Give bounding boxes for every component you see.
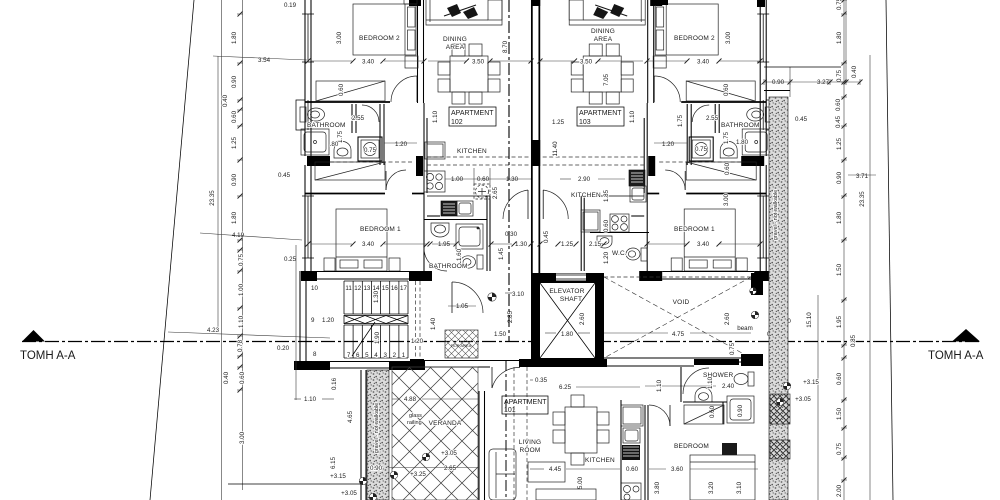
- exterior wall west: [304, 0, 306, 156]
- svg-text:1.80: 1.80: [231, 31, 238, 44]
- kitchen west wall: [423, 103, 425, 271]
- door corridor: [503, 190, 528, 219]
- svg-text:0.90: 0.90: [231, 75, 238, 88]
- right dimension chain labels: [767, 0, 869, 497]
- svg-text:ROOM: ROOM: [519, 447, 540, 454]
- svg-text:11: 11: [345, 285, 352, 292]
- svg-text:2.85: 2.85: [507, 310, 514, 323]
- svg-text:5.00: 5.00: [577, 476, 584, 489]
- bed bedroom2: [353, 4, 416, 55]
- apt101 entry door: [492, 367, 520, 388]
- svg-text:BEDROOM 2: BEDROOM 2: [359, 35, 400, 42]
- svg-text:1.80: 1.80: [736, 139, 749, 146]
- svg-text:TOMH A-A: TOMH A-A: [20, 350, 76, 362]
- elevator shaft: [531, 273, 604, 367]
- corridor door from landing: [452, 282, 483, 313]
- right dim chain verticals: [843, 0, 845, 500]
- svg-text:SHAFT: SHAFT: [560, 296, 582, 303]
- svg-text:10: 10: [311, 285, 318, 292]
- svg-text:1.80: 1.80: [231, 211, 238, 224]
- svg-text:0.75: 0.75: [836, 442, 843, 455]
- svg-text:13: 13: [363, 285, 370, 292]
- kitchen counter apt102: [424, 142, 490, 216]
- sofa lower edge: [536, 489, 596, 500]
- svg-text:1.25: 1.25: [561, 241, 574, 248]
- dining table: [450, 56, 488, 92]
- stair numbers: [311, 285, 407, 359]
- svg-text:0.60: 0.60: [724, 162, 731, 175]
- expansion joint dashes: [415, 281, 417, 358]
- right boundary line: [886, 0, 893, 500]
- svg-text:0.90: 0.90: [737, 404, 744, 417]
- svg-text:23.35: 23.35: [209, 190, 216, 206]
- svg-text:6.15: 6.15: [330, 456, 337, 469]
- svg-text:0.45: 0.45: [278, 172, 291, 179]
- bedroom apt101: [645, 405, 758, 500]
- bathroom window bump: [296, 100, 305, 130]
- svg-text:1.00: 1.00: [451, 176, 464, 183]
- svg-text:1.40: 1.40: [430, 317, 437, 330]
- svg-text:AREA: AREA: [446, 44, 465, 51]
- svg-text:3.40: 3.40: [697, 59, 710, 66]
- svg-text:1.30: 1.30: [506, 176, 519, 183]
- svg-text:+3.15: +3.15: [803, 379, 819, 386]
- svg-text:TOMH A-A: TOMH A-A: [928, 350, 984, 362]
- svg-text:6.25: 6.25: [559, 384, 572, 391]
- svg-text:4: 4: [374, 352, 378, 359]
- svg-text:8.70: 8.70: [502, 40, 509, 53]
- svg-text:3.71: 3.71: [856, 173, 869, 180]
- veranda dims/levels: [228, 245, 478, 500]
- svg-text:gravel - not walkable: gravel - not walkable: [773, 190, 779, 240]
- svg-text:2.65: 2.65: [492, 186, 499, 199]
- sofa apt101: [489, 449, 516, 500]
- site boundary diagonal (left property line): [150, 0, 194, 500]
- bed bedroom1: [336, 209, 387, 271]
- svg-text:1.20: 1.20: [411, 338, 424, 345]
- svg-text:0.90: 0.90: [370, 465, 383, 472]
- svg-text:0.16: 0.16: [331, 377, 338, 390]
- bedroom1 north wall: [305, 193, 385, 195]
- svg-text:4.45: 4.45: [549, 466, 562, 473]
- svg-text:16: 16: [391, 285, 398, 292]
- svg-text:2.90: 2.90: [578, 176, 591, 183]
- veranda lattice: [392, 367, 478, 500]
- svg-text:1.90: 1.90: [374, 331, 381, 344]
- svg-text:beam: beam: [737, 325, 752, 332]
- svg-text:1.25: 1.25: [836, 137, 843, 150]
- svg-text:BATHROOM: BATHROOM: [429, 263, 468, 270]
- svg-text:3.40: 3.40: [362, 241, 375, 248]
- svg-text:3.50: 3.50: [580, 59, 593, 66]
- site line vertical left: [221, 0, 223, 500]
- svg-text:0.19: 0.19: [284, 2, 297, 9]
- svg-text:DINING: DINING: [443, 36, 467, 43]
- shower tray: [301, 129, 329, 155]
- svg-text:1.10: 1.10: [707, 376, 714, 389]
- svg-text:1.20: 1.20: [395, 141, 408, 148]
- svg-text:+3.05: +3.05: [341, 490, 357, 497]
- svg-text:3.00: 3.00: [239, 431, 246, 444]
- apartment unit geometry (walls/furniture): [296, 0, 540, 281]
- building lower-left wall: [360, 370, 362, 500]
- beam dashed lines: [427, 156, 531, 158]
- svg-text:W.C.: W.C.: [612, 250, 627, 257]
- stair treads lower flight: [344, 325, 408, 358]
- svg-text:2.00: 2.00: [836, 484, 843, 497]
- bathroom2 fixtures apt102: [424, 220, 487, 272]
- svg-text:0.85: 0.85: [850, 334, 857, 347]
- svg-text:15: 15: [382, 285, 389, 292]
- svg-text:15.10: 15.10: [806, 312, 813, 328]
- svg-text:8: 8: [313, 351, 317, 358]
- svg-text:0.40: 0.40: [851, 65, 858, 78]
- svg-text:+3.15: +3.15: [330, 473, 346, 480]
- svg-text:101: 101: [504, 407, 516, 414]
- bedroom1 south wall: [301, 271, 317, 281]
- crosshatch blocks right: [770, 394, 790, 424]
- svg-text:3.60: 3.60: [671, 466, 684, 473]
- svg-text:2.55: 2.55: [706, 115, 719, 122]
- svg-text:0.90: 0.90: [836, 171, 843, 184]
- gravel strip bottom-left: [367, 370, 389, 500]
- svg-text:1.75: 1.75: [677, 114, 684, 127]
- svg-text:gravel - not walkable: gravel - not walkable: [374, 403, 380, 453]
- living room apt101: [489, 377, 640, 500]
- left dimension chain labels: [207, 2, 297, 444]
- svg-text:0.40: 0.40: [223, 371, 230, 384]
- stair rail: [344, 316, 408, 324]
- left dim chain verticals: [242, 0, 244, 490]
- svg-text:102: 102: [451, 119, 463, 126]
- svg-text:1.10: 1.10: [304, 396, 317, 403]
- svg-text:1.95: 1.95: [438, 241, 451, 248]
- dim slashes row y61 & y244: [306, 59, 763, 247]
- stair direction line: [352, 322, 375, 356]
- svg-text:0.30: 0.30: [505, 231, 518, 238]
- svg-text:glass: glass: [409, 413, 422, 419]
- svg-text:7: 7: [347, 352, 351, 359]
- svg-text:BATHROOM: BATHROOM: [307, 122, 346, 129]
- svg-text:6: 6: [356, 352, 360, 359]
- svg-text:3.00: 3.00: [723, 193, 730, 206]
- svg-text:1.85: 1.85: [603, 189, 610, 202]
- svg-text:0.60: 0.60: [836, 372, 843, 385]
- svg-text:0.60: 0.60: [835, 98, 842, 111]
- svg-text:0.60: 0.60: [626, 466, 639, 473]
- svg-text:3.00: 3.00: [725, 31, 732, 44]
- svg-text:0.25: 0.25: [284, 256, 297, 263]
- apartment 102 labels: [307, 31, 531, 270]
- svg-text:23.35: 23.35: [859, 191, 866, 207]
- closet apt101: [684, 405, 724, 424]
- svg-text:1.80: 1.80: [836, 211, 843, 224]
- svg-text:0.75: 0.75: [729, 342, 736, 355]
- top-right terrace walls: [764, 66, 841, 68]
- section marker left triangle: [22, 330, 45, 342]
- spot levels right gravel: [783, 382, 791, 390]
- left dim ticks: [168, 12, 330, 393]
- svg-text:+3.05: +3.05: [441, 450, 457, 457]
- right apartment unit (mirror): [531, 0, 775, 281]
- svg-text:14: 14: [373, 285, 380, 292]
- svg-text:0.90: 0.90: [231, 173, 238, 186]
- svg-text:1.80: 1.80: [836, 31, 843, 44]
- svg-text:VOID: VOID: [673, 299, 690, 306]
- svg-text:APARTMENT: APARTMENT: [504, 399, 547, 406]
- svg-text:0.60: 0.60: [338, 83, 345, 96]
- stairwell walls: [294, 271, 425, 370]
- svg-text:2.15: 2.15: [589, 241, 602, 248]
- svg-text:0.78: 0.78: [237, 339, 244, 352]
- svg-text:1.75: 1.75: [723, 131, 730, 144]
- kitchen counter apt103: [581, 170, 646, 232]
- bathroom walls: [379, 104, 381, 165]
- svg-text:3.10: 3.10: [512, 291, 525, 298]
- svg-text:0.45: 0.45: [835, 115, 842, 128]
- bathroom2 walls: [486, 196, 488, 271]
- bottom block top wall: [410, 359, 763, 367]
- svg-text:0.60: 0.60: [239, 371, 246, 384]
- svg-text:3.40: 3.40: [697, 241, 710, 248]
- svg-text:7.05: 7.05: [603, 73, 610, 86]
- svg-text:BEDROOM 1: BEDROOM 1: [360, 226, 401, 233]
- svg-text:0.75: 0.75: [695, 146, 708, 153]
- void area: [604, 276, 751, 278]
- svg-text:2.65: 2.65: [444, 465, 457, 472]
- svg-text:2.40: 2.40: [722, 383, 735, 390]
- svg-text:2: 2: [393, 352, 397, 359]
- svg-text:11.40: 11.40: [552, 141, 559, 157]
- closet bedroom2: [316, 81, 385, 101]
- svg-text:3: 3: [383, 352, 387, 359]
- svg-text:1.80: 1.80: [561, 331, 574, 338]
- svg-text:9: 9: [311, 317, 315, 324]
- apartment 103 labels: [543, 28, 760, 264]
- svg-text:1.50: 1.50: [836, 407, 843, 420]
- svg-text:VERANDA: VERANDA: [429, 420, 462, 427]
- svg-text:1.45: 1.45: [498, 247, 505, 260]
- svg-text:0.45: 0.45: [543, 230, 550, 243]
- svg-text:12: 12: [354, 285, 361, 292]
- svg-text:4.65: 4.65: [347, 410, 354, 423]
- wc cell: [358, 137, 382, 161]
- stair treads upper flight: [344, 281, 408, 314]
- svg-text:LIVING: LIVING: [519, 439, 542, 446]
- svg-text:railing: railing: [407, 420, 422, 426]
- svg-text:APARTMENT: APARTMENT: [451, 110, 494, 117]
- right dim ticks: [762, 0, 877, 483]
- svg-text:3.27: 3.27: [817, 79, 830, 86]
- svg-text:1: 1: [402, 352, 406, 359]
- veranda east wall: [478, 391, 480, 500]
- svg-text:BATHROOM: BATHROOM: [721, 122, 760, 129]
- sofa: [426, 0, 502, 25]
- svg-text:1.00: 1.00: [238, 283, 245, 296]
- svg-text:0.75: 0.75: [364, 147, 377, 154]
- svg-text:0.75: 0.75: [836, 69, 843, 82]
- svg-text:BEDROOM 1: BEDROOM 1: [674, 226, 715, 233]
- svg-text:1.20: 1.20: [662, 141, 675, 148]
- svg-text:1.10: 1.10: [432, 110, 439, 123]
- center party line: [508, 0, 510, 341]
- w.c. fixtures apt103: [590, 233, 649, 262]
- svg-text:APARTMENT: APARTMENT: [579, 110, 622, 117]
- exterior wall west lower: [304, 165, 306, 271]
- door hall: [386, 170, 406, 190]
- svg-text:2.55: 2.55: [352, 115, 365, 122]
- svg-text:0.60: 0.60: [477, 176, 490, 183]
- svg-text:KITCHEN: KITCHEN: [457, 148, 487, 155]
- wash basin: [334, 142, 351, 159]
- bedroom2 south wall: [305, 101, 390, 103]
- lobby hatch block: [445, 330, 478, 358]
- svg-text:4.75: 4.75: [672, 331, 685, 338]
- shower room apt101: [645, 367, 754, 424]
- svg-text:1.50: 1.50: [836, 263, 843, 276]
- svg-text:0.40: 0.40: [222, 94, 229, 107]
- svg-text:103: 103: [579, 119, 591, 126]
- core black columns right: [751, 273, 763, 295]
- svg-text:ELEVATOR: ELEVATOR: [549, 288, 584, 295]
- svg-text:1.05: 1.05: [456, 303, 469, 310]
- toilet: [300, 107, 306, 122]
- svg-text:3.20: 3.20: [708, 481, 715, 494]
- bedroom2 east wall: [417, 0, 419, 103]
- svg-text:3.40: 3.40: [362, 59, 375, 66]
- section line A-A: [22, 341, 980, 343]
- svg-text:1.25: 1.25: [231, 136, 238, 149]
- svg-text:17: 17: [400, 285, 407, 292]
- svg-text:1.30: 1.30: [373, 290, 380, 303]
- svg-text:+3.25: +3.25: [410, 471, 426, 478]
- svg-text:BEDROOM: BEDROOM: [674, 443, 709, 450]
- svg-text:1.10: 1.10: [629, 110, 636, 123]
- svg-text:3.80: 3.80: [654, 481, 661, 494]
- svg-text:0.60: 0.60: [723, 83, 730, 96]
- closet hall: [315, 162, 385, 180]
- svg-text:1.60: 1.60: [456, 248, 463, 261]
- svg-text:DINING: DINING: [591, 28, 615, 35]
- svg-text:2.60: 2.60: [579, 312, 586, 325]
- svg-text:1.30: 1.30: [515, 241, 528, 248]
- svg-text:1.25: 1.25: [552, 119, 565, 126]
- section marker right triangle: [952, 329, 980, 342]
- svg-text:ΠΟΡ AREA: ΠΟΡ AREA: [451, 343, 472, 348]
- svg-text:1.20: 1.20: [603, 251, 610, 264]
- party wall: [531, 0, 533, 273]
- svg-text:3.10: 3.10: [736, 481, 743, 494]
- svg-text:3.50: 3.50: [472, 59, 485, 66]
- svg-text:0.20: 0.20: [277, 345, 290, 352]
- svg-text:0.60: 0.60: [231, 110, 238, 123]
- svg-text:2.60: 2.60: [724, 312, 731, 325]
- svg-text:AREA: AREA: [594, 36, 613, 43]
- svg-text:KITCHEN: KITCHEN: [571, 192, 601, 199]
- svg-text:0.60: 0.60: [603, 219, 610, 232]
- svg-text:1.10: 1.10: [656, 379, 663, 392]
- column block: [307, 156, 330, 166]
- door bedroom2: [391, 76, 417, 102]
- svg-text:3.00: 3.00: [336, 31, 343, 44]
- svg-text:+3.05: +3.05: [795, 396, 811, 403]
- svg-text:0.45: 0.45: [795, 116, 808, 123]
- gravel strip right: [769, 97, 788, 500]
- svg-text:0.75: 0.75: [238, 253, 245, 266]
- svg-text:KITCHEN: KITCHEN: [585, 457, 615, 464]
- dashed joint lines corridor: [505, 360, 507, 500]
- svg-text:1.20: 1.20: [322, 317, 335, 324]
- svg-text:0.35: 0.35: [535, 377, 548, 384]
- svg-text:5: 5: [365, 352, 369, 359]
- svg-text:0.90: 0.90: [772, 79, 785, 86]
- kitchen apt101: [530, 400, 643, 500]
- dining table apt101: [565, 407, 597, 453]
- svg-text:.80: .80: [330, 141, 339, 148]
- svg-text:1.10: 1.10: [238, 315, 245, 328]
- svg-text:4.88: 4.88: [404, 396, 417, 403]
- svg-text:BEDROOM 2: BEDROOM 2: [674, 35, 715, 42]
- spot levels right edge: [751, 311, 759, 319]
- svg-text:1.95: 1.95: [836, 315, 843, 328]
- svg-text:4.23: 4.23: [207, 327, 220, 334]
- manhole spot: [488, 293, 496, 301]
- svg-text:1.50: 1.50: [494, 331, 507, 338]
